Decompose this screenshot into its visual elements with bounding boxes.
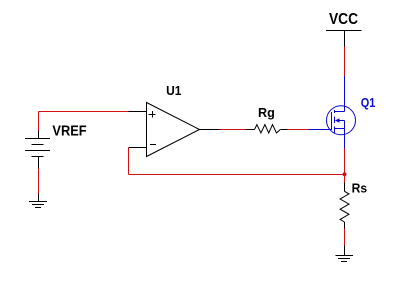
svg-text:Rg: Rg (258, 106, 275, 120)
wire op-amp output to Rg (220, 129, 246, 131)
wire Q1 source to node (344, 149, 346, 183)
power symbol VCC (326, 31, 362, 47)
wire Rs to ground (344, 229, 346, 246)
junction node (343, 172, 347, 176)
svg-text:Q1: Q1 (361, 95, 376, 110)
feedback wire to inverting input (129, 148, 345, 175)
ground (right) (336, 246, 354, 262)
resistor Rg (246, 125, 288, 133)
op-amp U1 (129, 103, 220, 157)
ground (left) (29, 194, 47, 208)
svg-text:VREF: VREF (52, 123, 86, 140)
wire VCC to Q1 drain (344, 47, 346, 77)
wire Rg to Q1 gate (288, 129, 309, 131)
wire battery plus to op-amp (39, 112, 129, 132)
resistor Rs (340, 182, 349, 228)
battery VREF (25, 131, 50, 168)
svg-text:VCC: VCC (329, 11, 358, 28)
svg-text:U1: U1 (166, 84, 181, 98)
transistor Q1 (309, 76, 356, 149)
wire battery minus to ground (38, 169, 40, 194)
svg-text:Rs: Rs (352, 180, 368, 195)
